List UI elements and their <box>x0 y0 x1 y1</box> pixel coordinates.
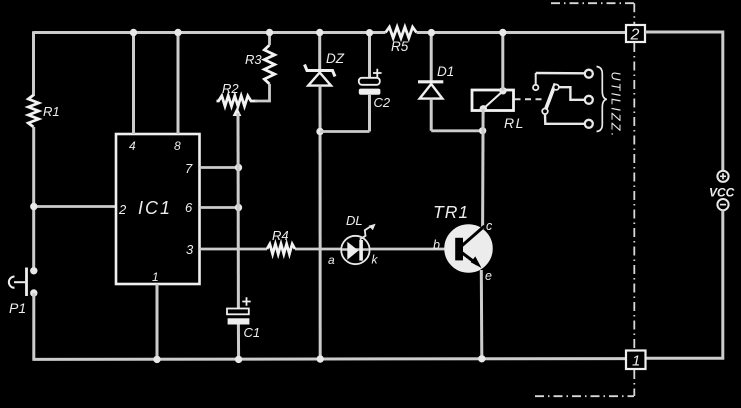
wire relay coil bottom to TR1 collector <box>481 109 485 229</box>
module boundary dash-dot top <box>551 2 634 4</box>
svg-text:3: 3 <box>186 242 194 257</box>
wire C1 to bottom rail <box>237 325 240 360</box>
wire pin1 <box>156 284 159 359</box>
LED DL <box>341 224 375 265</box>
relay RL coil <box>472 87 514 112</box>
wire DZ to C2 link <box>320 130 370 133</box>
switch arm <box>546 84 556 110</box>
svg-text:R5: R5 <box>391 39 409 54</box>
svg-text:R2: R2 <box>222 81 239 96</box>
wire TR1 base (pin3 row right) <box>370 248 447 251</box>
switch contact fixed B terminal <box>554 85 559 90</box>
svg-text:R4: R4 <box>272 228 289 243</box>
module boundary dash-dot vertical upper <box>633 3 635 24</box>
svg-text:IC1: IC1 <box>138 198 172 218</box>
svg-text:a: a <box>328 253 335 267</box>
terminal 1 square <box>626 351 646 370</box>
svg-text:P1: P1 <box>9 300 26 316</box>
svg-text:C1: C1 <box>244 325 261 340</box>
svg-text:D1: D1 <box>437 64 454 79</box>
battery VCC positive terminal <box>717 171 728 182</box>
wire left rail middle <box>32 127 35 268</box>
svg-text:2: 2 <box>630 27 640 44</box>
svg-text:TR1: TR1 <box>433 202 469 222</box>
resistor R5 <box>386 27 417 38</box>
wire VCC minus to terminal1 <box>646 210 723 358</box>
capacitor C2 <box>359 33 382 132</box>
switch pivot terminal <box>542 109 548 115</box>
junction node C2 / top rail <box>366 29 373 36</box>
wire R3 top to rail <box>268 33 271 46</box>
module boundary dash-dot vertical middle <box>633 43 635 350</box>
potentiometer R2 wiper arrow <box>233 107 242 116</box>
junction node D1 / top rail <box>428 29 435 36</box>
wire wiper line vertical <box>237 113 240 309</box>
junction node DZ / C2 link <box>316 128 323 135</box>
wire top rail left segment <box>34 31 386 34</box>
svg-text:6: 6 <box>185 200 193 215</box>
junction node relay / top rail <box>499 29 506 36</box>
svg-text:RL: RL <box>504 115 525 131</box>
wire TR1 emitter to bottom rail <box>480 270 484 359</box>
resistor R1 <box>28 95 38 127</box>
junction node R3 / top rail <box>266 29 273 36</box>
svg-text:1: 1 <box>152 270 159 284</box>
wire top rail right segment <box>417 31 627 34</box>
wire P1 to bottom rail <box>32 293 35 360</box>
junction node emitter / bottom rail <box>478 355 485 362</box>
svg-text:b: b <box>433 238 440 252</box>
wire left rail upper <box>32 31 35 96</box>
module boundary dash-dot bottom <box>535 395 634 397</box>
junction node DZ / top rail <box>316 29 323 36</box>
svg-text:1: 1 <box>632 353 640 370</box>
pushbutton P1 <box>9 267 38 297</box>
wire DZ anode down <box>319 86 322 359</box>
wire pin4 <box>132 33 135 135</box>
junction node C1 / bottom rail <box>235 356 242 363</box>
resistor R3 <box>264 45 274 84</box>
svg-text:DZ: DZ <box>326 51 345 66</box>
switch contact fixed A wire <box>535 73 537 85</box>
wire relay coil top to rail <box>501 33 504 91</box>
wire switch pivot to bottom ring <box>545 114 585 124</box>
junction node pin8 / top rail <box>174 29 181 36</box>
ring terminal top <box>585 70 593 78</box>
svg-text:c: c <box>486 219 493 233</box>
junction node pin6 / wiper line <box>235 204 242 211</box>
wire bottom rail <box>32 357 626 361</box>
transistor TR1 <box>445 225 492 272</box>
svg-text:R3: R3 <box>245 52 262 67</box>
svg-text:k: k <box>372 253 379 267</box>
capacitor C1 <box>227 297 251 324</box>
svg-text:VCC: VCC <box>709 186 735 200</box>
wire R3 bottom to R2 <box>255 84 270 101</box>
svg-text:UTILIZZ.: UTILIZZ. <box>609 72 623 139</box>
svg-text:e: e <box>485 269 492 283</box>
svg-text:4: 4 <box>129 139 136 153</box>
wire pin6 <box>200 206 239 209</box>
svg-text:R1: R1 <box>43 104 60 119</box>
terminal 2 square <box>626 25 645 42</box>
junction node D1 / collector line <box>479 127 486 134</box>
dashed link relay to switch <box>515 98 547 100</box>
wire terminal2 to VCC plus <box>645 32 723 171</box>
junction node pin1 / bottom rail <box>153 356 160 363</box>
svg-text:8: 8 <box>174 139 181 153</box>
brace utilizz <box>597 67 607 132</box>
junction node DZ / bottom rail <box>317 355 324 362</box>
wire pin7 <box>200 166 239 169</box>
wire pin8 <box>177 33 180 135</box>
switch contact fixed A terminal <box>533 85 538 90</box>
wire pin2 to left rail <box>34 205 116 208</box>
wire D1 to collector node <box>431 129 482 132</box>
svg-text:2: 2 <box>118 202 127 217</box>
battery VCC negative terminal <box>717 199 728 210</box>
resistor R4 <box>267 244 295 254</box>
junction node pin7 / wiper line <box>235 164 242 171</box>
zener diode DZ <box>305 33 336 86</box>
ring terminal middle <box>585 96 593 104</box>
junction node left rail / pin2 <box>30 203 37 210</box>
ring terminal bottom <box>585 120 593 128</box>
module boundary dash-dot vertical lower <box>633 370 635 396</box>
svg-text:C2: C2 <box>374 95 391 110</box>
svg-text:DL: DL <box>346 213 363 228</box>
diode D1 <box>418 33 443 131</box>
wire pin3 to R4 <box>200 248 268 251</box>
potentiometer R2 <box>217 96 258 106</box>
svg-text:7: 7 <box>185 161 193 176</box>
op-amp/timer IC1 body <box>116 134 200 284</box>
junction node pin4 / top rail <box>130 29 137 36</box>
wire switch contact B to middle ring <box>559 87 585 100</box>
wire R4 to LED <box>295 248 342 251</box>
